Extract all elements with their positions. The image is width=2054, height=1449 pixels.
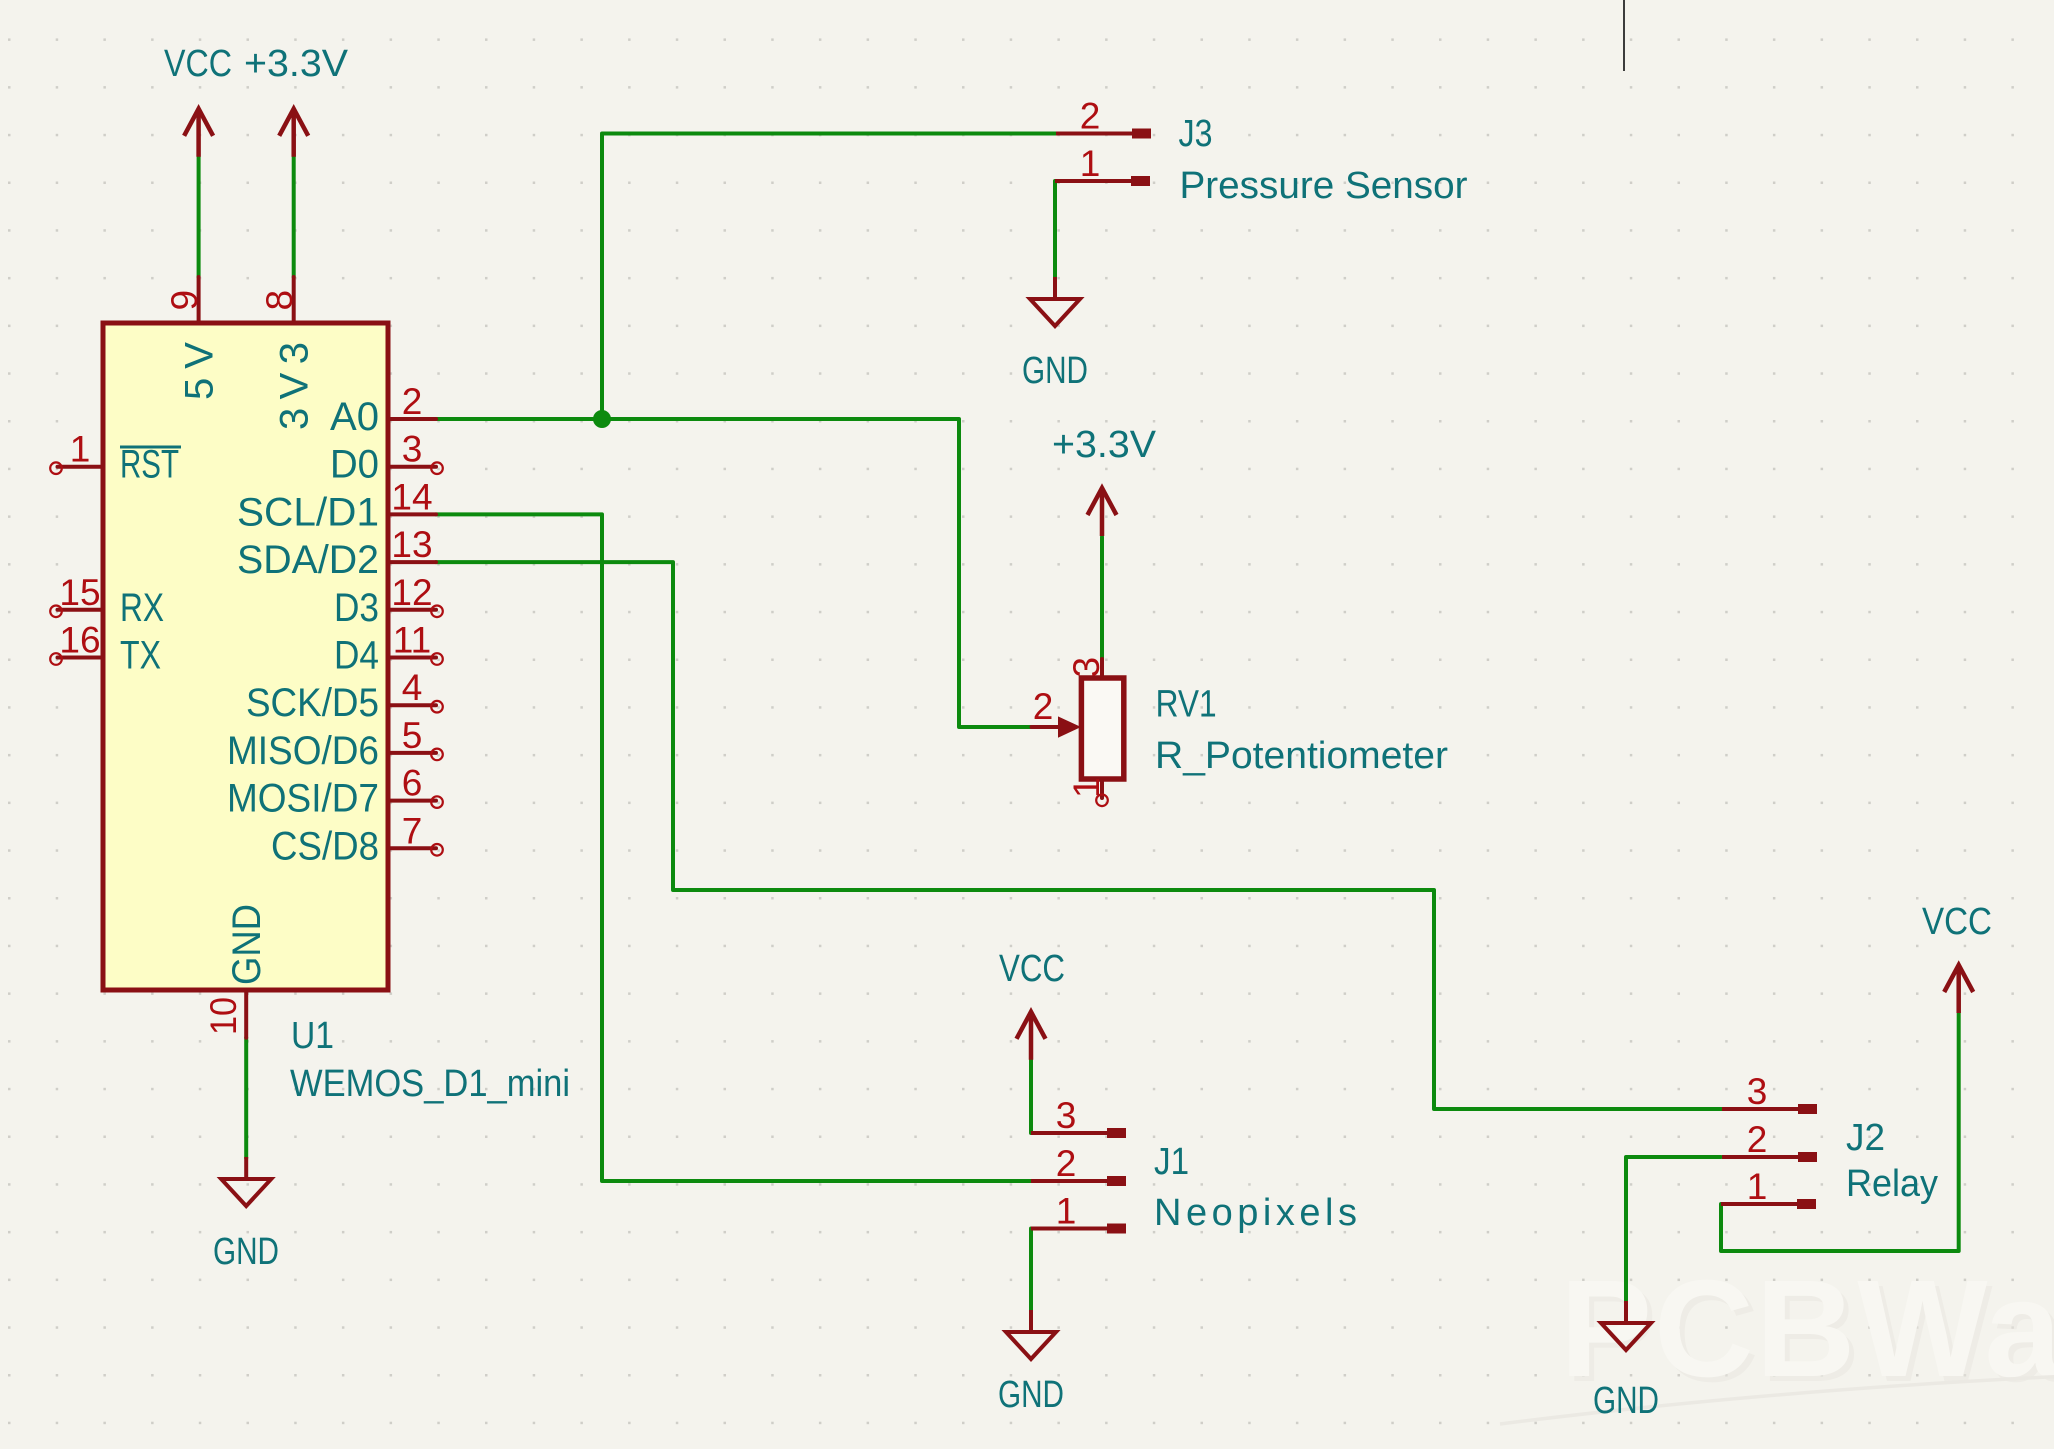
svg-text:SCK/D5: SCK/D5 (246, 681, 379, 725)
svg-text:MISO/D6: MISO/D6 (227, 729, 379, 773)
U1 pin 8 (3V3) (259, 277, 317, 430)
wire junction to RV1 pin 2 (602, 419, 1033, 727)
svg-text:Pressure Sensor: Pressure Sensor (1180, 165, 1468, 207)
wire J2 pin 1 to VCC (1721, 1013, 1959, 1251)
svg-text:2: 2 (1747, 1119, 1768, 1160)
svg-text:1: 1 (1056, 1191, 1077, 1232)
svg-text:7: 7 (402, 810, 423, 851)
RV1 pin 1 (1066, 777, 1108, 806)
wire +3.3V to RV1 pin 3 (1100, 537, 1104, 659)
U1 pin 4 (SCK/D5) (246, 667, 443, 725)
svg-text:Relay: Relay (1846, 1163, 1938, 1205)
svg-text:TX: TX (120, 634, 161, 678)
svg-text:1: 1 (1066, 777, 1107, 798)
svg-text:SDA/D2: SDA/D2 (237, 538, 379, 582)
connector J1 pin 3 (1031, 1095, 1126, 1138)
sheet boundary tick (1623, 0, 1625, 71)
U1 pin 11 (D4) (334, 620, 443, 678)
J1 reference label (1154, 1141, 1189, 1183)
U1 pin 13 (SDA/D2) (237, 524, 436, 582)
svg-text:J3: J3 (1179, 113, 1213, 155)
wire junction up to J3 pin 2 (602, 134, 1056, 420)
U1 pin 7 (CS/D8) (271, 810, 443, 868)
wire VCC to J1 pin 3 (1029, 1059, 1033, 1133)
svg-text:RV1: RV1 (1156, 684, 1217, 726)
svg-text:MOSI/D7: MOSI/D7 (227, 777, 379, 821)
power symbol VCC (top left) (164, 43, 232, 157)
junction dot A0 net (593, 410, 611, 428)
svg-text:GND: GND (1593, 1380, 1659, 1422)
U1 pin 16 (TX) (50, 620, 161, 678)
svg-text:2: 2 (1056, 1143, 1077, 1184)
wire J3 pin 1 to GND (1053, 181, 1057, 278)
connector J3 pin 1 (1055, 143, 1150, 186)
wire U1 pin 8 to +3.3V (292, 156, 296, 277)
U1 pin 12 (D3) (334, 572, 443, 630)
U1 pin 3 (D0) (330, 429, 443, 487)
PCBWay watermark (1500, 1252, 2054, 1424)
svg-text:3: 3 (1066, 657, 1107, 678)
svg-text:GND: GND (225, 904, 269, 985)
svg-text:3: 3 (402, 429, 423, 470)
power symbol GND (below U1) (213, 1157, 279, 1273)
connector J2 pin 2 (1722, 1119, 1817, 1162)
connector J1 pin 2 (1031, 1143, 1126, 1186)
U1 value label WEMOS_D1_mini (290, 1063, 570, 1105)
svg-text:6: 6 (402, 763, 423, 804)
svg-text:4: 4 (402, 667, 423, 708)
wire U1 pin 9 to VCC (197, 156, 201, 277)
svg-text:9: 9 (164, 290, 205, 311)
svg-text:2: 2 (1080, 96, 1101, 137)
power symbol GND (below J2) (1593, 1301, 1659, 1422)
connector J2 pin 3 (1722, 1071, 1817, 1114)
wire J1 pin 1 to GND (1029, 1229, 1033, 1312)
svg-text:16: 16 (59, 620, 100, 661)
svg-text:RX: RX (120, 586, 164, 630)
connector J3 pin 2 (1056, 96, 1151, 139)
svg-text:U1: U1 (291, 1015, 334, 1057)
power symbol GND (below J1) (998, 1310, 1064, 1416)
wire SCL/D1 to J1 pin 2 (436, 514, 1031, 1181)
svg-text:1: 1 (1080, 143, 1101, 184)
svg-text:12: 12 (391, 572, 432, 613)
potentiometer RV1 body (1081, 678, 1123, 779)
IC U1 WEMOS_D1_mini body (103, 323, 388, 990)
U1 pin 1 (RST) (50, 429, 181, 487)
U1 reference label (291, 1015, 334, 1057)
svg-text:3: 3 (1747, 1071, 1768, 1112)
RV1 pin 2 (wiper arrow) (1032, 686, 1082, 738)
power symbol GND (below J3) (1022, 277, 1088, 392)
J1 value label Neopixels (1154, 1192, 1357, 1234)
svg-text:WEMOS_D1_mini: WEMOS_D1_mini (290, 1063, 570, 1105)
svg-text:D0: D0 (330, 443, 379, 487)
svg-text:+3.3V: +3.3V (244, 43, 349, 85)
svg-text:+3.3V: +3.3V (1052, 424, 1157, 466)
U1 pin 5 (MISO/D6) (227, 715, 443, 773)
RV1 reference label (1156, 684, 1217, 726)
J3 value label Pressure Sensor (1180, 165, 1468, 207)
RV1 value label R_Potentiometer (1155, 735, 1448, 777)
power symbol +3.3V (top left) (244, 43, 349, 157)
wire A0 to junction (436, 417, 602, 421)
U1 pin 15 (RX) (50, 572, 164, 630)
svg-text:RST: RST (120, 443, 179, 487)
svg-text:8: 8 (259, 290, 300, 311)
U1 pin 10 (GND) (203, 904, 269, 1038)
power symbol VCC (above J1) (999, 948, 1065, 1060)
svg-text:3V3: 3V3 (273, 342, 317, 430)
svg-text:J2: J2 (1846, 1117, 1885, 1159)
svg-text:14: 14 (391, 476, 432, 517)
U1 pin 9 (5V) (164, 277, 222, 400)
svg-text:GND: GND (213, 1231, 279, 1273)
J3 reference label (1179, 113, 1213, 155)
connector J2 pin 1 (1721, 1166, 1816, 1209)
power symbol +3.3V (above RV1) (1052, 424, 1157, 536)
svg-text:3: 3 (1056, 1095, 1077, 1136)
svg-text:R_Potentiometer: R_Potentiometer (1155, 735, 1448, 777)
svg-text:5: 5 (402, 715, 423, 756)
U1 pin 2 (A0) (330, 381, 436, 439)
wire SDA/D2 to J2 pin 3 (436, 562, 1722, 1109)
svg-text:J1: J1 (1154, 1141, 1189, 1183)
svg-text:D4: D4 (334, 634, 379, 678)
svg-text:15: 15 (59, 572, 100, 613)
svg-text:2: 2 (402, 381, 423, 422)
J2 value label Relay (1846, 1163, 1938, 1205)
wire J2 pin 2 to GND (1626, 1157, 1721, 1302)
RV1 pin 3 (1066, 657, 1107, 678)
svg-text:11: 11 (393, 620, 431, 661)
svg-text:D3: D3 (334, 586, 379, 630)
connector J1 pin 1 (1031, 1191, 1126, 1234)
svg-text:GND: GND (998, 1374, 1064, 1416)
svg-text:1: 1 (70, 429, 91, 470)
svg-text:SCL/D1: SCL/D1 (237, 490, 379, 534)
U1 pin 6 (MOSI/D7) (227, 763, 443, 821)
svg-text:CS/D8: CS/D8 (271, 824, 379, 868)
svg-text:2: 2 (1033, 686, 1054, 727)
svg-text:1: 1 (1747, 1166, 1768, 1207)
J2 reference label (1846, 1117, 1885, 1159)
svg-text:VCC: VCC (164, 43, 232, 85)
svg-text:13: 13 (391, 524, 432, 565)
svg-text:VCC: VCC (999, 948, 1065, 990)
svg-text:10: 10 (203, 997, 244, 1035)
U1 pin 14 (SCL/D1) (237, 476, 436, 534)
svg-text:GND: GND (1022, 350, 1088, 392)
power symbol VCC (right, J2) (1922, 901, 1992, 1013)
svg-text:VCC: VCC (1922, 901, 1992, 943)
svg-text:A0: A0 (330, 395, 379, 439)
wire U1 pin 10 to GND (244, 1038, 248, 1158)
